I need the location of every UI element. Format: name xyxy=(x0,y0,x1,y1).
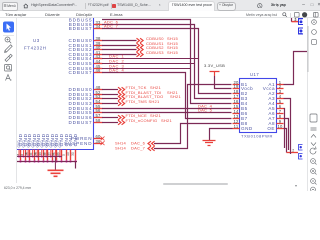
junction dot xyxy=(36,155,38,157)
svg-text:GND: GND xyxy=(22,140,26,148)
svg-text:2: 2 xyxy=(295,18,297,22)
wire net FTDI_BLAST_TDO xyxy=(102,98,118,100)
svg-text:SH15: SH15 xyxy=(167,50,179,55)
svg-text:GND: GND xyxy=(45,140,49,148)
junction dot xyxy=(65,160,67,162)
wire net DAC_7 (to U17 B1) xyxy=(154,85,232,149)
wire net A3 down xyxy=(284,99,291,155)
wire net ADC_6 (BDBUS6 to U17 B3) xyxy=(102,25,232,99)
junction dot xyxy=(74,160,76,162)
svg-text:GND: GND xyxy=(40,140,44,148)
wire net FTDI_TCK xyxy=(102,89,118,91)
junction dot xyxy=(69,160,71,162)
junction dot xyxy=(37,160,39,162)
right panel xyxy=(307,18,320,191)
svg-text:GND: GND xyxy=(241,126,253,131)
toolbar xyxy=(0,11,320,18)
svg-text:U17: U17 xyxy=(250,72,259,77)
junction dot xyxy=(41,155,43,157)
wire net A1 up to right edge xyxy=(284,52,308,85)
tab bar xyxy=(0,0,320,11)
wire net FTDI_TMS xyxy=(102,103,118,105)
svg-text:58: 58 xyxy=(95,118,101,123)
junction dot xyxy=(19,160,21,162)
svg-text:FTDI_TMS: FTDI_TMS xyxy=(126,99,148,104)
wire to ground symbol xyxy=(75,162,77,169)
schematic document xyxy=(17,18,307,183)
IC U17 TXB0108PWR xyxy=(240,79,277,133)
svg-text:SH21: SH21 xyxy=(161,118,173,123)
ground symbol (U3) xyxy=(48,170,64,176)
wire net FTDI_BLAST_TDI xyxy=(102,94,118,96)
junction dot xyxy=(31,155,33,157)
wire net DAC_4 xyxy=(102,73,232,119)
no-connect X PWREN xyxy=(101,137,105,141)
svg-text:GND: GND xyxy=(49,140,53,148)
svg-text:FTDI_nCONFIG: FTDI_nCONFIG xyxy=(126,118,158,123)
svg-text:3.3V_USB: 3.3V_USB xyxy=(204,63,225,68)
svg-text:2: 2 xyxy=(292,148,294,152)
junction dot xyxy=(45,155,47,157)
wire U17 GND xyxy=(210,129,233,141)
junction dot xyxy=(50,155,52,157)
connector J (top right, partially hidden) xyxy=(299,19,304,35)
IC U3 FT4232H (body, partially off-screen left) xyxy=(17,18,94,150)
svg-text:GND: GND xyxy=(17,140,21,148)
left sidebar xyxy=(0,18,17,183)
wire net DAC_4 long (DDBUS4 to U17 B5) xyxy=(102,108,232,110)
no-connect X SUSPEND xyxy=(101,141,105,145)
wire net FTDI_NCE xyxy=(102,117,118,119)
svg-text:36: 36 xyxy=(95,139,101,144)
wire net A7 down xyxy=(284,119,289,151)
connector J top right (partially hidden) xyxy=(299,19,303,34)
junction dot xyxy=(27,155,29,157)
junction dot xyxy=(28,160,30,162)
wire net CDBUS2 xyxy=(102,49,137,51)
svg-text:GND: GND xyxy=(26,140,30,148)
svg-text:4: 4 xyxy=(17,154,19,156)
wire net A5 down xyxy=(284,109,285,149)
svg-text:10: 10 xyxy=(66,152,70,156)
svg-text:SH14: SH14 xyxy=(115,146,127,151)
status bar xyxy=(0,183,307,191)
svg-text:46: 46 xyxy=(95,68,101,73)
svg-text:DDBUS7: DDBUS7 xyxy=(68,120,92,125)
junction dot xyxy=(18,155,20,157)
junction dot xyxy=(22,155,24,157)
wire into top connector xyxy=(291,18,293,22)
svg-text:CDBUS7: CDBUS7 xyxy=(68,70,92,75)
svg-text:30: 30 xyxy=(71,152,75,156)
wire net CDBUS1 xyxy=(102,45,137,47)
svg-text:GND: GND xyxy=(35,140,39,148)
junction dot xyxy=(42,160,44,162)
svg-text:ADC_7: ADC_7 xyxy=(104,23,119,28)
wire into top connector xyxy=(291,18,293,22)
junction dot xyxy=(55,160,57,162)
connector J bottom right (partially hidden) xyxy=(299,145,303,160)
svg-text:U3: U3 xyxy=(33,38,40,43)
ground symbol (U3) xyxy=(48,171,64,177)
svg-text:DAC_7: DAC_7 xyxy=(131,146,146,151)
wire net DAC_6 (to U17 B8) xyxy=(154,124,232,144)
junction dot xyxy=(54,155,56,157)
svg-text:BDBUS7: BDBUS7 xyxy=(69,26,93,31)
junction dot xyxy=(59,155,61,157)
GND bus wire xyxy=(17,161,77,163)
svg-text:OE: OE xyxy=(267,126,275,131)
junction dot xyxy=(51,160,53,162)
wire net FTDI_nCONFIG xyxy=(102,122,118,124)
wire 3.3V_USB to U17 Vocb xyxy=(215,76,232,89)
wire net DAC_1 xyxy=(102,58,199,60)
wire to ground symbol xyxy=(54,157,56,170)
svg-text:SH21: SH21 xyxy=(170,94,182,99)
GND bus wire xyxy=(17,156,62,158)
wire net ADC_7 (BDBUS7 to U17 B2) xyxy=(102,29,232,94)
svg-text:SH21: SH21 xyxy=(149,99,161,104)
svg-text:FT4232H: FT4232H xyxy=(24,45,47,50)
svg-text:10: 10 xyxy=(277,124,283,129)
svg-text:DAC_4: DAC_4 xyxy=(109,68,124,73)
ground symbol (U17) xyxy=(203,141,216,146)
wire net DAC_2 xyxy=(102,63,195,65)
svg-text:CDBUS3: CDBUS3 xyxy=(146,50,164,55)
svg-text:GND: GND xyxy=(73,133,79,146)
wire net OE to connector xyxy=(284,129,287,153)
wire net DAC_3 xyxy=(102,68,191,70)
svg-text:GND: GND xyxy=(31,140,35,148)
wire net CDBUS0 xyxy=(102,40,137,42)
svg-text:DAC_5: DAC_5 xyxy=(198,107,213,112)
junction dot xyxy=(33,160,35,162)
wire net ADC_5 (BDBUS5 row to U17 B4) xyxy=(102,20,232,104)
svg-text:GND: GND xyxy=(54,140,58,148)
junction dot xyxy=(24,160,26,162)
junction dot xyxy=(60,160,62,162)
junction dot xyxy=(46,160,48,162)
svg-text:34: 34 xyxy=(95,24,101,29)
svg-text:GND: GND xyxy=(58,140,62,148)
svg-text:11: 11 xyxy=(234,124,239,129)
wire net CDBUS3 xyxy=(102,54,137,56)
wire net DAC_5 long (DDBUS5 to U17 B6) xyxy=(102,112,232,114)
svg-text:TXB0108PWR: TXB0108PWR xyxy=(241,133,273,138)
